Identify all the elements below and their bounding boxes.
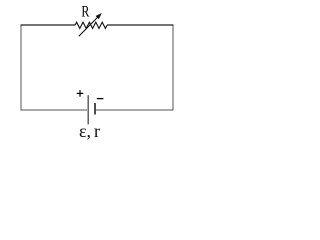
minus sign xyxy=(97,98,104,100)
wire: bottom side, right segment from battery xyxy=(96,109,174,111)
wire: bottom side, left segment to battery xyxy=(21,109,88,111)
battery positive terminal (long plate) xyxy=(87,95,89,124)
svg-text:R: R xyxy=(81,3,89,20)
svg-text:ε,: ε, xyxy=(79,121,91,141)
battery negative terminal (short plate) xyxy=(94,103,96,115)
wire: right vertical side xyxy=(172,25,174,110)
svg-text:r: r xyxy=(94,121,100,141)
plus sign xyxy=(77,90,84,97)
resistor R (variable, zigzag) xyxy=(75,22,107,28)
wire: top side, left segment to resistor xyxy=(21,24,76,26)
wire: left vertical side xyxy=(20,25,22,110)
variable-resistor arrow through R xyxy=(79,13,102,36)
wire: top side, right segment from resistor xyxy=(107,24,174,26)
